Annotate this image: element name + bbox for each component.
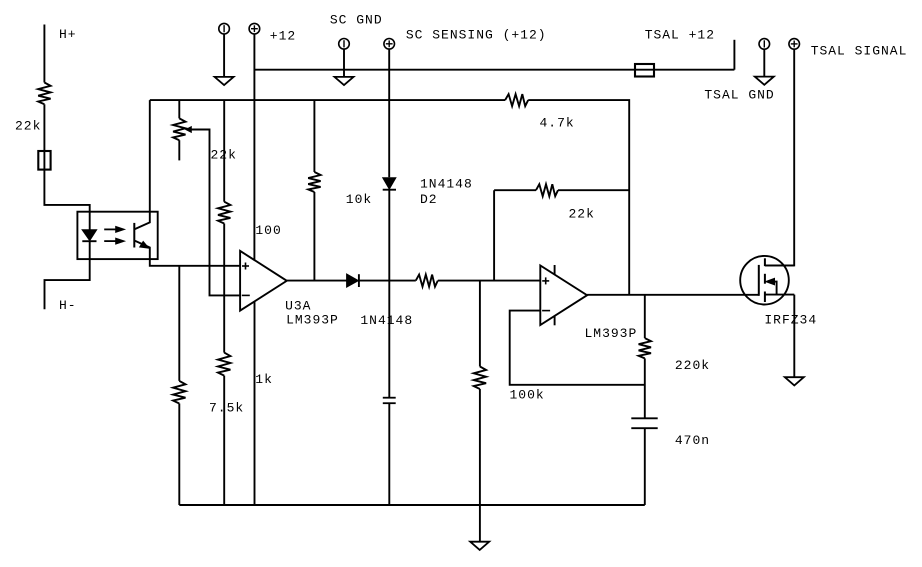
- resistor R2 100: [218, 202, 230, 224]
- wire U3A output: [287, 280, 347, 282]
- wire R3 to ground rail: [223, 376, 225, 505]
- fuse F2: [635, 64, 654, 77]
- wire opto collector to node N1: [149, 100, 151, 212]
- wire N1 to potentiometer: [178, 100, 180, 118]
- wire C2 to ground rail: [644, 428, 646, 505]
- svg-text:220k: 220k: [675, 358, 710, 373]
- U3B - symbol: [542, 310, 550, 312]
- Q1 body diode arrow: [766, 279, 774, 285]
- resistor R9 220k: [639, 338, 651, 358]
- fuse F1: [38, 151, 50, 170]
- power port P6 TSAL SIGNAL: [789, 39, 800, 50]
- Q1 channel segment source: [764, 292, 766, 303]
- label 22k (feedback): [569, 207, 595, 222]
- wire R1 to fuse F1: [43, 104, 45, 151]
- optocoupler U2 body: [77, 212, 157, 259]
- wire opto emitter to U3A + input: [150, 259, 240, 266]
- opto LED anode triangle: [82, 230, 96, 241]
- opto LED cathode bar: [82, 240, 96, 242]
- label 470n: [675, 433, 710, 448]
- svg-text:H+: H+: [59, 27, 77, 42]
- label +12: [270, 29, 296, 44]
- label 4.7k: [540, 116, 575, 131]
- wire R7 through rail to ground: [479, 389, 481, 542]
- capacitor C2 470n top plate: [631, 417, 657, 419]
- svg-text:U3A: U3A: [285, 298, 311, 313]
- power port P2 +12: [249, 23, 260, 34]
- opto transistor base bar: [133, 223, 135, 248]
- wire D2 to signal node: [388, 190, 390, 397]
- U3A - symbol: [242, 294, 250, 296]
- capacitor C1 bottom plate: [383, 402, 396, 404]
- ground: [755, 77, 774, 85]
- wire signal node to R7: [479, 281, 481, 367]
- diode D2 1N4148: [383, 178, 396, 189]
- U3B + symbol: [542, 277, 549, 284]
- svg-text:TSAL GND: TSAL GND: [704, 88, 774, 103]
- resistor R4 7.5k: [173, 381, 185, 404]
- wire H+ stub: [43, 25, 45, 83]
- wire LED cathode to H-: [45, 241, 90, 309]
- label LM393P (U3B): [585, 326, 638, 341]
- label 1N4148 (D1): [360, 313, 413, 328]
- label 100: [255, 223, 281, 238]
- Q1 channel segment middle: [764, 274, 766, 284]
- wire U3A V- pin to ground rail: [254, 301, 256, 505]
- opto light arrow 1: [104, 227, 124, 233]
- wire TSAL +12 stub: [733, 40, 735, 70]
- capacitor C1 top plate: [383, 397, 396, 399]
- wire + input node to R4: [178, 266, 180, 381]
- power port P4 SC SENSING: [384, 39, 395, 50]
- wire +12 rail: [254, 69, 734, 71]
- diode D1 cathode bar: [358, 274, 360, 287]
- svg-text:470n: 470n: [675, 433, 710, 448]
- Q1 body to source: [774, 282, 777, 295]
- capacitor C2 470n bottom plate: [631, 427, 657, 429]
- resistor R6: [416, 275, 438, 287]
- svg-text:100: 100: [255, 223, 281, 238]
- wire +12 vertical down to U3A V+ pin: [253, 34, 255, 260]
- label 1N4148 (D2): [420, 177, 473, 192]
- wire R8 left segment: [494, 189, 536, 191]
- svg-text:1N4148: 1N4148: [360, 313, 413, 328]
- label SC SENSING (+12): [406, 27, 547, 42]
- opto light arrow 2: [104, 238, 124, 244]
- resistor R1 22k: [38, 83, 50, 105]
- label 22k (pot): [211, 147, 237, 162]
- ground: [470, 542, 489, 550]
- wire R10 to U3A output node: [313, 192, 315, 281]
- wire P3 to ground: [343, 49, 345, 77]
- wire D1 to R6: [359, 280, 416, 282]
- svg-text:10k: 10k: [346, 192, 372, 207]
- label TSAL GND: [704, 88, 774, 103]
- U3B V+ pin stub: [554, 265, 556, 275]
- wire R8 to U3B output node: [558, 189, 629, 191]
- resistor R8 22k: [536, 184, 558, 196]
- label IRFZ34: [764, 313, 817, 328]
- label TSAL SIGNAL: [811, 43, 908, 58]
- ground: [215, 77, 234, 85]
- label SC GND: [330, 13, 383, 28]
- svg-text:22k: 22k: [569, 207, 595, 222]
- ground: [785, 377, 804, 385]
- label H-: [59, 298, 77, 313]
- svg-text:1N4148: 1N4148: [420, 177, 473, 192]
- wire ground rail: [179, 504, 645, 506]
- wire wiper to U3A - input: [191, 130, 240, 296]
- wire R4 to ground rail: [178, 404, 180, 506]
- opto transistor collector: [135, 212, 150, 230]
- diode D1 1N4148: [347, 274, 359, 287]
- svg-text:+12: +12: [270, 29, 296, 44]
- ground: [335, 77, 354, 85]
- svg-text:22k: 22k: [15, 118, 41, 133]
- power port P5 TSAL GND: [759, 39, 770, 50]
- wire P4 to D2: [388, 49, 390, 177]
- wire F1 pass-through: [43, 151, 45, 170]
- label 7.5k: [209, 401, 244, 416]
- svg-text:100k: 100k: [510, 388, 545, 403]
- transistor Q1 IRFZ34 body circle: [740, 256, 789, 305]
- opto transistor emitter: [135, 241, 150, 259]
- label 220k: [675, 358, 710, 373]
- label 22k: [15, 118, 41, 133]
- op-amp U3B: [540, 266, 587, 326]
- svg-text:SC GND: SC GND: [330, 13, 383, 28]
- wire R6 to U3B + input: [438, 280, 541, 282]
- potentiometer RV1 22k body: [173, 118, 185, 140]
- resistor R7 100k: [474, 367, 486, 390]
- wire U3B output to MOSFET gate: [587, 294, 759, 296]
- wire P1 to ground: [223, 34, 225, 77]
- svg-text:TSAL SIGNAL: TSAL SIGNAL: [811, 43, 908, 58]
- label LM393P (U3A): [286, 313, 339, 328]
- svg-text:1k: 1k: [255, 372, 273, 387]
- opto emitter arrowhead: [140, 242, 149, 248]
- wire Q1 source to ground: [793, 295, 795, 378]
- wire signal node to R8: [493, 190, 495, 280]
- wire F1 to opto LED anode: [44, 170, 89, 230]
- wire TSAL SIGNAL down to MOSFET drain: [765, 49, 794, 265]
- potentiometer wiper arrow: [186, 127, 191, 132]
- diode D2 cathode bar: [383, 189, 396, 191]
- Q1 channel segment drain: [764, 258, 766, 266]
- label TSAL +12: [645, 28, 715, 43]
- svg-text:7.5k: 7.5k: [209, 401, 244, 416]
- resistor R5 4.7k: [505, 94, 528, 106]
- label 100k: [510, 388, 545, 403]
- power port P3 SC GND: [339, 39, 350, 50]
- wire U3B - input feedback: [510, 311, 645, 385]
- wire N1 to R2: [223, 100, 225, 202]
- Q1 drain stub: [765, 264, 794, 266]
- wire C1 to ground rail: [388, 403, 390, 505]
- U3B V- pin stub: [554, 316, 556, 326]
- wire R9 to C2: [644, 358, 646, 418]
- op-amp U3A: [240, 251, 287, 311]
- wire R2 to + input node: [223, 224, 225, 266]
- wire + input node to R3: [223, 266, 225, 353]
- wire N1 to R10: [313, 100, 315, 172]
- label U3A: [285, 298, 311, 313]
- label D2: [420, 192, 438, 207]
- potentiometer bottom stub: [178, 140, 180, 160]
- svg-text:H-: H-: [59, 298, 77, 313]
- label 10k: [346, 192, 372, 207]
- label H+: [59, 27, 77, 42]
- U3A + symbol: [242, 263, 249, 270]
- svg-text:D2: D2: [420, 192, 438, 207]
- resistor R10 10k: [308, 172, 320, 192]
- svg-text:LM393P: LM393P: [286, 313, 339, 328]
- power port P1 (GND type, top-left): [219, 23, 230, 34]
- wire 4.7k to U3B output node: [528, 100, 629, 295]
- svg-text:TSAL +12: TSAL +12: [645, 28, 715, 43]
- label 1k: [255, 372, 273, 387]
- wire P5 to ground: [763, 49, 765, 76]
- svg-text:IRFZ34: IRFZ34: [764, 313, 817, 328]
- wire output node to R9: [644, 295, 646, 338]
- resistor R3 1k: [218, 353, 230, 376]
- Q1 gate bar: [758, 265, 760, 296]
- wire node N1 horizontal (collector rail): [150, 99, 505, 101]
- svg-text:LM393P: LM393P: [585, 326, 638, 341]
- svg-text:4.7k: 4.7k: [540, 116, 575, 131]
- Q1 source stub: [765, 294, 794, 296]
- svg-text:SC SENSING (+12): SC SENSING (+12): [406, 27, 547, 42]
